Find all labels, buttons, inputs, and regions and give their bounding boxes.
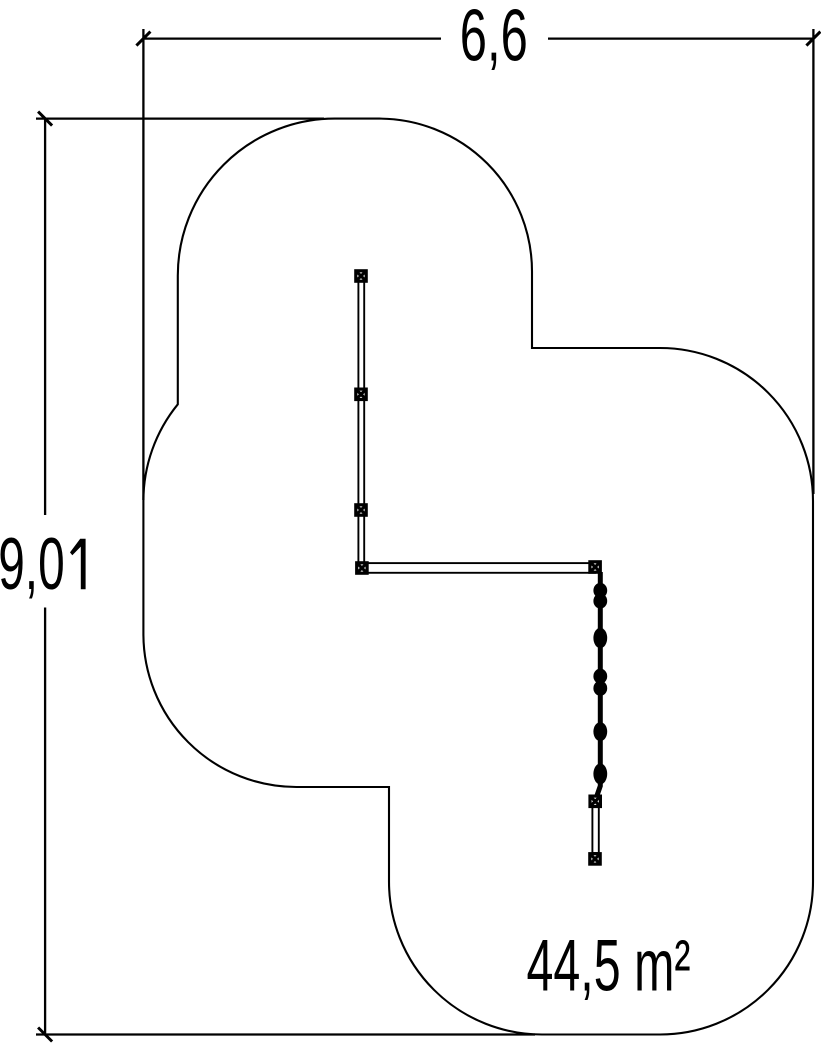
svg-text:6,6: 6,6	[460, 0, 528, 76]
dimension line left, upper segment	[44, 119, 46, 515]
tick top-right	[806, 32, 820, 46]
equipment vertical member (double line)	[358, 276, 364, 568]
extension line bottom (left dimension)	[36, 1033, 535, 1035]
pole ball 3	[593, 669, 607, 684]
post 2	[356, 389, 366, 399]
extension line top (left dimension)	[36, 117, 324, 119]
tick left-top	[38, 112, 52, 126]
pole ball 4	[593, 722, 607, 741]
equipment horizontal beam (double line)	[362, 563, 595, 573]
post 7	[590, 854, 600, 864]
svg-text:9,0: 9,0	[0, 524, 65, 605]
equipment pole (right)	[596, 572, 601, 799]
tick left-bottom	[38, 1028, 52, 1042]
safety zone outline	[143, 119, 813, 1035]
extension line left (top dimension)	[142, 29, 144, 500]
post 4 corner	[357, 563, 367, 573]
post 5 beam end	[590, 562, 600, 572]
dimension line top, right segment	[548, 37, 813, 39]
equipment ladder rail (double line)	[592, 806, 598, 853]
pole ball 1	[593, 583, 607, 598]
dimension text digit 1	[70, 539, 86, 590]
tick top-left	[136, 32, 150, 46]
pole ball 5	[593, 763, 607, 784]
dimension line top, left segment	[143, 37, 441, 39]
post 6	[590, 796, 600, 806]
dimension line left, lower segment	[44, 608, 46, 1035]
post 3	[356, 505, 366, 515]
pole ball 2	[593, 628, 607, 648]
extension line right (top dimension)	[812, 29, 814, 494]
svg-text:44,5 m²: 44,5 m²	[527, 926, 691, 1007]
post 1	[356, 271, 366, 281]
